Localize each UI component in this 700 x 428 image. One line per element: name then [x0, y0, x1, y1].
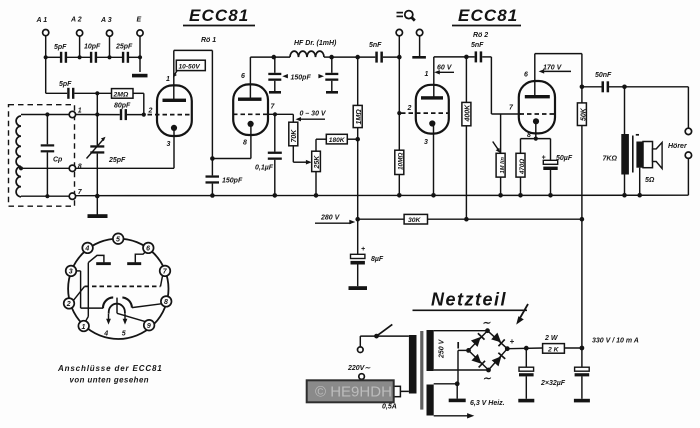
wire U1b grid to 70K corner [267, 114, 293, 122]
svg-text:80pF: 80pF [114, 103, 131, 110]
transformer core [632, 136, 634, 173]
wire coil tap to pin8 terminal [21, 167, 69, 169]
icon probe/magnifier [397, 11, 415, 21]
node 400K top [464, 55, 469, 60]
node 50nF left [580, 85, 585, 90]
node heater-ground [455, 381, 460, 386]
wire choke right to 5nF [332, 56, 376, 58]
watermark box HE9HDH [307, 380, 394, 402]
node A3 bus [107, 55, 111, 59]
wire U2b anode up and right [535, 54, 582, 103]
wire 1M node down through bus to 280V node [357, 139, 359, 219]
terminal Hörer bottom [685, 152, 691, 158]
svg-text:30K: 30K [408, 217, 422, 224]
svg-text:+: + [361, 246, 365, 253]
capacitor 150pF right of choke [325, 57, 338, 94]
wire 250V bottom to bridge [434, 369, 489, 371]
socket outline circle [68, 239, 168, 339]
svg-text:150pF: 150pF [222, 178, 243, 185]
wire U2a anode up and right [434, 57, 475, 97]
node anode-follower junction [210, 156, 215, 161]
wire A3 lead down [109, 36, 111, 57]
wire E lead down [139, 36, 141, 72]
node A2 bus [78, 55, 82, 59]
socket pin 6 [143, 243, 154, 254]
svg-text:5nF: 5nF [369, 42, 382, 49]
svg-text:1MΩ: 1MΩ [356, 109, 363, 125]
svg-text:1M lin: 1M lin [500, 157, 506, 174]
svg-text:2MΩ: 2MΩ [113, 91, 129, 98]
node bus 470 [518, 193, 523, 198]
node bus primary [622, 193, 627, 198]
capacitor 80pF [114, 103, 131, 121]
wire 180K to 1M node [347, 138, 357, 140]
socket pin 1 [78, 321, 89, 332]
node bus 150pF [210, 193, 215, 198]
svg-text:4: 4 [84, 246, 89, 253]
svg-text:150pF: 150pF [291, 74, 312, 81]
svg-text:50K: 50K [580, 107, 587, 121]
node E bus [138, 55, 142, 59]
contact bar under right jack [412, 56, 426, 59]
U1b grid (dashed) [233, 113, 268, 115]
svg-text:2 W: 2 W [544, 335, 559, 342]
svg-text:0,5A: 0,5A [382, 404, 397, 411]
resistor 30K [404, 214, 427, 224]
wire pin1 to grid line [76, 114, 145, 116]
terminal A2 [70, 17, 83, 37]
wire primary top lead [624, 87, 626, 134]
socket pin 7 [160, 266, 171, 277]
diode D3 (left-bottom) [471, 354, 485, 368]
wire bridge minus down [458, 350, 469, 383]
svg-text:10pF: 10pF [84, 44, 101, 51]
U1b anode plate [238, 98, 262, 101]
bridge rectifier outline [469, 331, 508, 370]
wire antenna bus [46, 56, 140, 58]
svg-text:7: 7 [509, 105, 514, 112]
wire bridge plus to 2K [507, 347, 542, 350]
node bus ground drop [95, 194, 100, 199]
svg-text:3: 3 [167, 141, 171, 148]
node 0.1uF top [273, 112, 277, 116]
node bus 25K [314, 193, 319, 198]
node bridge bottom [486, 368, 491, 373]
node varcap top [95, 112, 99, 116]
wire 2K to B+ node [564, 347, 582, 349]
svg-text:A 3: A 3 [100, 17, 112, 24]
capacitor 32uF no.1 [518, 348, 534, 402]
wire varcap to ground [96, 196, 98, 214]
terminal pin8 coil [69, 164, 82, 172]
svg-text:© HE9HDH: © HE9HDH [315, 384, 392, 401]
svg-text:8: 8 [164, 299, 168, 306]
svg-text:25pF: 25pF [108, 157, 126, 164]
annotation 60V arrow [434, 65, 454, 75]
wire heater top lead [434, 383, 458, 385]
capacitor 50uF electrolytic [542, 139, 573, 196]
ground under tuner [88, 214, 108, 218]
ground heater [449, 384, 466, 402]
polarity minus tick [457, 342, 459, 349]
svg-text:2: 2 [148, 108, 153, 115]
terminal A1 [36, 17, 49, 36]
capacitor 150pF (U1a plate bypass) [206, 159, 243, 196]
terminal pin7 coil [69, 189, 83, 199]
wire Hörer bottom to bus [687, 158, 689, 195]
svg-text:5nF: 5nF [471, 42, 484, 49]
resistor 2MOhm [112, 89, 134, 99]
power transformer core [420, 331, 423, 410]
inductor HF Dr. 1mH [274, 40, 337, 57]
capacitor 150pF left of choke [268, 57, 281, 94]
wire A1 down to 5pF series [46, 57, 67, 93]
node bus voice coil [637, 193, 642, 198]
svg-text:220V∼: 220V∼ [347, 365, 371, 372]
resistor 70K [289, 122, 298, 146]
svg-text:Hörer: Hörer [668, 143, 688, 150]
socket wire pin1 to anode1 [86, 263, 89, 322]
node transformer top [622, 85, 627, 90]
resistor 10MOhm [395, 113, 405, 195]
socket wire pin7 to grid [161, 276, 163, 287]
wire voice coil bottom to bus [639, 168, 641, 196]
socket grid dashed line [85, 285, 161, 287]
speaker magnet and cone [643, 142, 662, 169]
svg-text:HF Dr. (1mH): HF Dr. (1mH) [294, 40, 337, 47]
ground E [132, 74, 148, 78]
dashed coil box [9, 105, 75, 207]
wire U1a anode lead up and over [174, 50, 213, 158]
svg-text:Rö 1: Rö 1 [201, 37, 216, 44]
U1b cathode [248, 121, 254, 127]
wiper arrow into 25K [306, 160, 312, 165]
title ECC81 (Rö2) [452, 6, 521, 26]
wire Hörer top lead [687, 87, 689, 128]
node bus cathode U2a [431, 193, 436, 198]
resistor 180K [326, 134, 347, 144]
U2a grid (dashed) [401, 112, 449, 114]
wire heater bottom with arrow [434, 413, 475, 418]
potentiometer 25K [312, 151, 321, 171]
annotation 10-50V box with arrow [173, 60, 205, 77]
socket heater arrow 5 [122, 314, 128, 338]
svg-text:250 V: 250 V [439, 338, 446, 359]
capacitor Cp [41, 115, 63, 197]
resistor 470 Ohm [516, 139, 526, 196]
capacitor 10pF (A2-A3) [84, 44, 101, 63]
wire 5nF to grid node U2a [383, 56, 399, 58]
wire 25K top to 180K [316, 139, 326, 151]
node 400K bottom [464, 217, 469, 222]
resistor 50K [577, 103, 587, 219]
resistor 2K 2W [543, 335, 565, 353]
wire 250V top to bridge [434, 330, 488, 332]
wire 5pF to node X [74, 92, 111, 94]
svg-text:E: E [137, 17, 142, 24]
wire U1b anode lead up [250, 57, 273, 98]
svg-text:von unten gesehen: von unten gesehen [70, 376, 150, 385]
svg-text:Rö 2: Rö 2 [473, 32, 488, 39]
wire 50nF line [582, 86, 689, 88]
wire node X down to pin1 line [96, 93, 98, 114]
title Netzteil [413, 290, 529, 325]
svg-text:3: 3 [424, 139, 428, 146]
node choke right [329, 55, 334, 60]
power transformer 250V winding [427, 330, 446, 371]
svg-text:180K: 180K [329, 137, 346, 144]
svg-text:∼: ∼ [482, 318, 491, 329]
terminal jack left [396, 29, 402, 35]
svg-text:2×32µF: 2×32µF [540, 380, 566, 387]
wire 70K to 25K wiper [293, 146, 307, 162]
terminal E [137, 17, 144, 37]
terminal jack right [416, 29, 422, 35]
node bridge top [485, 328, 490, 333]
svg-text:5pF: 5pF [59, 81, 72, 88]
variable capacitor 25pF [87, 115, 127, 197]
svg-text:ECC81: ECC81 [458, 6, 518, 25]
svg-text:5: 5 [122, 331, 126, 338]
wire A1 lead down [45, 36, 47, 58]
svg-text:6: 6 [524, 72, 528, 79]
annotation 170V arrow [539, 65, 571, 74]
capacitor 5pF (A1-A2) [54, 44, 67, 63]
socket pin 9 [144, 320, 155, 331]
svg-text:8: 8 [78, 164, 82, 171]
node bus 1Mlin [498, 193, 503, 198]
svg-text:9: 9 [147, 323, 151, 330]
node B+ vertical [580, 217, 585, 222]
socket heater arrow 4 [103, 314, 111, 338]
svg-text:∼: ∼ [483, 374, 492, 385]
diode D2 (top-right) [491, 333, 505, 347]
capacitor 5nF coupling 1 [369, 42, 383, 63]
svg-text:1: 1 [166, 76, 170, 83]
svg-text:Anschlüsse der ECC81: Anschlüsse der ECC81 [57, 364, 163, 373]
annotation 280V arrow [315, 215, 355, 225]
terminal mains lower [359, 374, 365, 380]
terminal mains upper [358, 347, 364, 353]
svg-text:280 V: 280 V [320, 215, 341, 222]
svg-text:2: 2 [66, 301, 71, 308]
diode D1 (left-top) [471, 333, 485, 347]
triode U2a envelope [416, 85, 449, 134]
triode U1b envelope [233, 84, 268, 135]
svg-text:0 – 30 V: 0 – 30 V [300, 111, 327, 118]
wire U1a cathode to coil pin8 [76, 130, 174, 168]
triode U1a envelope [157, 85, 192, 136]
socket pin 4 [82, 243, 93, 254]
svg-text:Netzteil: Netzteil [431, 290, 507, 310]
svg-text:5pF: 5pF [54, 44, 67, 51]
wire coil top to pin1 terminal [21, 114, 69, 116]
node A1 bus [44, 55, 48, 59]
capacitor 32uF no.2 [574, 348, 590, 402]
capacitor 8uF electrolytic [351, 219, 384, 286]
diode D4 (bottom-right) [492, 353, 506, 367]
node bus 10M [397, 193, 402, 198]
socket heater centre tap to pin9 [117, 298, 145, 322]
svg-text:8: 8 [243, 140, 247, 147]
svg-text:3: 3 [69, 269, 73, 276]
transformer primary 7KOhm [603, 134, 629, 175]
capacitor 5nF coupling 2 [471, 42, 484, 62]
svg-text:2: 2 [407, 105, 412, 112]
svg-text:50nF: 50nF [595, 72, 612, 79]
wire U2b cathode junction [521, 123, 551, 139]
svg-text:0,1µF: 0,1µF [255, 165, 274, 172]
node Cp top [45, 112, 49, 116]
U2b grid (dashed) [520, 113, 555, 115]
node bus 0.1uF [273, 193, 278, 198]
wire grid node down to U2a grid [398, 57, 400, 113]
U2a anode plate [421, 96, 443, 99]
wire U1b cathode down-left to follower node [212, 126, 251, 159]
svg-text:170 V: 170 V [543, 65, 563, 72]
label Rö2 [473, 32, 488, 39]
svg-text:6,3 V Heiz.: 6,3 V Heiz. [470, 400, 505, 407]
node 180K junction [355, 137, 360, 142]
svg-text:1: 1 [82, 324, 86, 331]
node grid coupling U2a [397, 55, 402, 60]
svg-text:7: 7 [78, 189, 83, 196]
resistor 400K [462, 57, 472, 219]
socket anode 2 symbol [127, 252, 145, 265]
resistor 1MOhm [353, 57, 363, 139]
svg-text:4: 4 [103, 331, 108, 338]
node U2a grid [397, 111, 401, 115]
svg-text:25pF: 25pF [115, 44, 133, 51]
terminal pin1 coil [69, 108, 82, 118]
svg-text:1: 1 [78, 108, 82, 115]
U2b anode plate [525, 95, 550, 98]
svg-text:50µF: 50µF [556, 155, 573, 162]
socket cathode arcs [103, 297, 132, 308]
svg-text:470Ω: 470Ω [519, 159, 526, 175]
svg-text:330 V / 10 m A: 330 V / 10 m A [592, 338, 639, 345]
socket wire pin3 to cathode [76, 271, 103, 308]
capacitor 0.1uF [255, 114, 282, 195]
svg-text:10MΩ: 10MΩ [398, 153, 405, 170]
socket heater hump [109, 304, 125, 314]
node grid tube1 [142, 113, 146, 117]
fuse 0,5A [362, 379, 409, 410]
socket pin 5 [113, 233, 124, 244]
wire 2MOhm to grid node [133, 93, 144, 114]
svg-text:7KΩ: 7KΩ [603, 156, 618, 163]
svg-text:Cp: Cp [53, 157, 63, 164]
wire B+ vertical down to PSU [581, 219, 583, 348]
ground 8uF [349, 286, 368, 290]
node bridge left [466, 348, 471, 353]
node 1M top [355, 55, 360, 60]
U2a cathode [429, 120, 435, 126]
socket pin 3 [66, 266, 77, 277]
terminal Hörer top [685, 128, 691, 134]
svg-text:5Ω: 5Ω [645, 177, 655, 184]
switch S1 [360, 324, 409, 347]
svg-text:1: 1 [425, 71, 429, 78]
potentiometer 1M lin [493, 114, 506, 195]
wire jack right lead [419, 36, 421, 56]
wire ground bus [76, 194, 689, 197]
wire U2a cathode to bus [433, 124, 435, 195]
svg-text:2 K: 2 K [547, 346, 560, 353]
wire jack left lead [398, 36, 400, 57]
power transformer primary bar [409, 335, 417, 394]
wire 280V line to 30K [358, 218, 404, 220]
wire 30K to 400K node [428, 218, 582, 220]
svg-text:400K: 400K [465, 104, 472, 123]
socket pin 8 [161, 296, 172, 307]
node choke left [272, 55, 277, 60]
U2b cathode [533, 118, 539, 124]
wire 5nF2 to U2b grid [482, 57, 521, 114]
node 32uF-1 top [524, 346, 529, 351]
node 280V [355, 217, 360, 222]
label Rö1 [201, 37, 216, 44]
wire coil bottom to pin7 terminal [21, 195, 69, 197]
svg-text:A 2: A 2 [70, 17, 82, 24]
svg-text:6: 6 [241, 73, 245, 80]
title ECC81 (Rö1) [183, 6, 255, 26]
power transformer 6,3V winding [427, 385, 434, 416]
capacitor 25pF (A3-E) [115, 44, 133, 63]
svg-text:70K: 70K [291, 129, 298, 143]
coil L1 [16, 116, 21, 197]
svg-text:10-50V: 10-50V [179, 63, 201, 70]
socket wire pin2 to grid [74, 286, 85, 300]
capacitor 50nF [595, 72, 612, 92]
terminal A3 [100, 17, 113, 36]
node B+ PSU [580, 346, 585, 351]
svg-text:8µF: 8µF [371, 256, 384, 263]
svg-text:A 1: A 1 [36, 17, 48, 24]
node varcap bottom on pin7 line [95, 194, 99, 198]
wire A2 lead down [79, 36, 81, 57]
svg-text:+: + [542, 155, 546, 162]
annotation 0-30V arrow [296, 111, 327, 122]
speaker voice coil 5 Ohm [636, 135, 655, 184]
triode U2b envelope [519, 81, 555, 133]
wire 25K bottom to bus [315, 172, 317, 196]
svg-text:ECC81: ECC81 [189, 6, 249, 25]
U1a cathode [171, 125, 177, 131]
svg-text:+: + [510, 337, 515, 346]
svg-text:5: 5 [116, 237, 120, 244]
node X [95, 91, 99, 95]
capacitor 5pF series (A1 to grid) [59, 81, 74, 99]
socket pin 2 [64, 298, 75, 309]
node bus 50uF [548, 193, 553, 198]
node bridge right [505, 346, 510, 351]
U1a grid (dashed) [148, 114, 192, 116]
svg-text:7: 7 [271, 104, 276, 111]
node coil tap [19, 166, 23, 170]
socket anode 1 symbol [88, 255, 110, 265]
socket wire pin8 to cathode2 [132, 304, 161, 308]
U1a anode plate [163, 99, 187, 102]
svg-text:6: 6 [146, 246, 150, 253]
wire primary bottom to bus [624, 175, 626, 196]
node Cp bottom [45, 194, 49, 198]
label 150pF with arrows [282, 74, 324, 81]
node cathode U2b [534, 137, 538, 141]
svg-text:25K: 25K [314, 155, 321, 170]
